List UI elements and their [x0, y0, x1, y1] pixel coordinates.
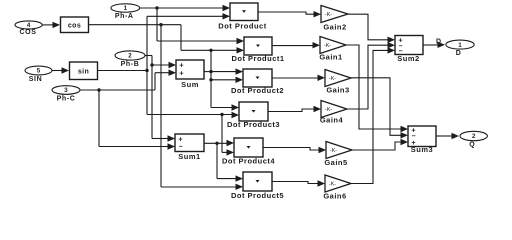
svg-text:Sum: Sum	[181, 80, 199, 89]
wire Ph-B to Sum in1	[152, 62, 176, 68]
wire Dot Product3 to Gain4	[268, 106, 321, 112]
svg-text:D: D	[436, 39, 441, 46]
wire Ph-C to Sum in2	[155, 70, 176, 76]
inport 2 Ph-B	[115, 51, 145, 68]
wire Gain2 to Sum2 in1	[348, 14, 395, 43]
wire Sum1 output	[204, 140, 234, 146]
wire Sum2 output	[423, 42, 445, 48]
svg-text:sin: sin	[78, 68, 89, 75]
junction Ph-A bus	[155, 6, 158, 9]
wire sin to Dot Product in2	[147, 13, 230, 19]
junction sin branch	[220, 113, 223, 116]
gain Gain4	[320, 101, 347, 125]
wire Gain5 to Sum3 in3	[352, 139, 408, 150]
dot product Dot Product2	[231, 69, 284, 95]
wire SIN to sin block	[52, 67, 69, 73]
svg-text:D: D	[456, 50, 462, 57]
wire Dot Product1 to Gain1	[272, 42, 320, 48]
wire Dot Product2 to Gain3	[272, 75, 325, 81]
outport 2 Q	[460, 131, 487, 148]
wire Sum1 branch vertical	[216, 143, 218, 178]
junction Ph-C bus	[97, 88, 100, 91]
svg-text:Dot Product4: Dot Product4	[222, 156, 275, 165]
junction Sum output joins bus	[209, 70, 212, 73]
svg-text:Dot Product5: Dot Product5	[231, 191, 284, 200]
svg-text:-K-: -K-	[324, 43, 331, 49]
dot product Dot Product4	[222, 138, 275, 165]
svg-text:SIN: SIN	[29, 76, 42, 83]
svg-text:Q: Q	[469, 142, 475, 149]
wire Ph-A to Dot Product in1	[140, 5, 230, 11]
svg-text:Gain2: Gain2	[323, 23, 346, 32]
inport 1 Ph-A	[111, 4, 140, 20]
gain Gain2	[321, 6, 348, 32]
svg-text:–: –	[179, 144, 183, 151]
dot product Dot Product1	[231, 37, 284, 63]
svg-text:3: 3	[64, 87, 68, 94]
wire Ph-C rise to Sum	[154, 73, 156, 90]
svg-text:cos: cos	[68, 22, 81, 29]
dot product Dot Product5	[231, 172, 284, 200]
svg-text:COS: COS	[20, 29, 37, 36]
dot product Dot Product3	[227, 102, 280, 129]
wire Dot Product4 to Gain5	[263, 147, 326, 153]
dot product Dot Product	[218, 3, 266, 30]
svg-text:-K-: -K-	[325, 107, 332, 113]
wire Sum out to Dot Product2 in1	[211, 68, 243, 74]
svg-text:Gain1: Gain1	[319, 53, 342, 62]
wire cos vertical bus right	[180, 25, 182, 51]
junction Sum1 out	[215, 142, 218, 145]
wire Ph-C to Sum1 in2	[99, 143, 175, 149]
sum block Sum2	[395, 36, 423, 64]
wire Gain3 to Sum3 in2	[351, 78, 408, 139]
trig block sin	[70, 62, 98, 80]
wire Ph-A vertical bus	[156, 8, 158, 41]
wire Dot Product5 to Gain6	[272, 180, 325, 186]
sum block Sum	[176, 60, 204, 89]
wire sin to Dot Product3 in2	[147, 112, 239, 118]
junction cos bus	[159, 23, 162, 26]
wire Sum3 output	[436, 133, 459, 139]
svg-text:2: 2	[472, 133, 476, 140]
svg-text:Ph-B: Ph-B	[121, 61, 140, 68]
wire cos output	[89, 24, 182, 26]
inport 4 COS	[15, 21, 42, 36]
svg-text:Sum2: Sum2	[397, 54, 419, 63]
wire Gain6 to Sum2 in3	[351, 47, 395, 183]
svg-text:+: +	[178, 135, 183, 144]
wire Ph-B from oval	[145, 55, 152, 57]
svg-text:Ph-C: Ph-C	[57, 95, 76, 102]
wire Dot Product to Gain2	[258, 11, 321, 17]
wire Ph-C output	[80, 89, 155, 91]
wire cos vertical bus left	[160, 25, 162, 187]
outport 1 D	[446, 40, 474, 57]
gain Gain1	[319, 37, 346, 62]
svg-text:-K-: -K-	[325, 12, 332, 18]
inport 5 SIN	[25, 66, 52, 83]
svg-text:1: 1	[124, 5, 128, 12]
svg-text:Sum1: Sum1	[178, 152, 200, 161]
wire Ph-C vertical drop	[98, 90, 100, 147]
svg-text:5: 5	[37, 68, 41, 75]
svg-text:Gain3: Gain3	[326, 86, 349, 95]
svg-text:Dot Product3: Dot Product3	[227, 120, 280, 129]
svg-text:+: +	[179, 68, 184, 77]
wire sin vertical bus	[146, 16, 148, 114]
svg-text:1: 1	[458, 42, 462, 49]
label D on wire	[436, 39, 441, 46]
wire Ph-B to Sum1 in1	[152, 135, 175, 141]
junction bus DP2 in2	[209, 78, 212, 81]
gain Gain6	[323, 175, 351, 200]
gain Gain3	[325, 70, 351, 95]
svg-text:Gain4: Gain4	[320, 116, 344, 125]
svg-text:-K-: -K-	[329, 76, 336, 82]
wire Gain1 to Sum3 in1	[346, 45, 408, 132]
junction Ph-B to Sum	[150, 63, 153, 66]
wire sin branch to Dot Product4 in2	[222, 149, 234, 155]
svg-text:Sum3: Sum3	[411, 145, 433, 154]
sum block Sum1	[175, 134, 204, 161]
wire Gain4 to Sum2 in2	[347, 42, 395, 109]
wire Ph-A to Dot Product1 in1	[157, 38, 244, 44]
sum block Sum3	[408, 125, 436, 154]
svg-text:Dot Product: Dot Product	[218, 21, 266, 30]
svg-text:Gain6: Gain6	[323, 191, 346, 200]
svg-text:Gain5: Gain5	[324, 158, 347, 167]
inport 3 Ph-C	[52, 86, 80, 103]
junction sin bus	[145, 69, 148, 72]
gain Gain5	[324, 142, 352, 168]
svg-text:Dot Product1: Dot Product1	[231, 54, 284, 63]
svg-text:-K-: -K-	[329, 182, 336, 188]
svg-text:Dot Product2: Dot Product2	[231, 86, 284, 95]
wire center vertical bus	[210, 50, 212, 107]
wire cos to Dot Product1 in2	[181, 47, 244, 53]
junction cos to center bus	[209, 49, 212, 52]
svg-text:2: 2	[128, 53, 132, 60]
wire bus to Dot Product3 in1	[211, 104, 239, 110]
wire sin output	[98, 70, 148, 72]
wire Ph-B vertical bus	[151, 56, 153, 139]
wire sin branch vertical	[221, 115, 223, 153]
wire COS to cos block	[42, 22, 60, 28]
wire Sum output	[204, 70, 211, 72]
wire Sum1 to Dot Product5 in1	[217, 175, 243, 181]
wire bus to Dot Product2 in2	[211, 77, 243, 83]
trig block cos	[61, 17, 89, 33]
wire cos to Dot Product5 in2	[161, 184, 243, 190]
svg-text:Ph-A: Ph-A	[115, 13, 134, 20]
svg-text:-K-: -K-	[330, 148, 337, 154]
